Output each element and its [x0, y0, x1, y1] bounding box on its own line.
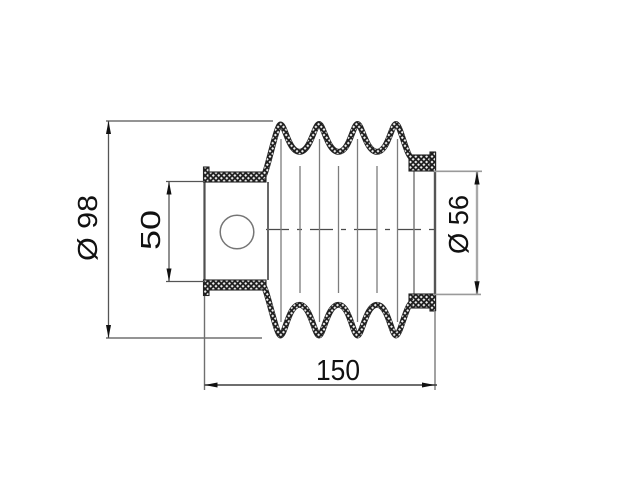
dim 98 dimension line	[108, 121, 110, 338]
dim 150 right arrow	[422, 383, 435, 388]
dim 50 bottom extension line	[166, 281, 205, 283]
big end left edge	[203, 167, 205, 296]
dim 56 bottom arrow	[474, 281, 479, 294]
dim 50 bottom arrow	[167, 269, 172, 282]
dim 150 left arrow	[205, 383, 218, 388]
dim 98 bottom arrow	[106, 325, 111, 338]
dim 150 left extension line	[204, 296, 206, 390]
small end top clamp band	[409, 155, 435, 171]
fold line at peak x=397.5	[397, 139, 399, 322]
fold line at valley x=338.5	[338, 166, 340, 293]
fold line at valley x=377	[376, 166, 378, 293]
small end bottom right lip	[430, 294, 436, 311]
fold line at valley x=300	[299, 166, 301, 293]
dim 56 top arrow	[474, 171, 479, 184]
big end top left lip	[204, 167, 210, 182]
dim 98 top arrow	[106, 121, 111, 134]
small end right edge	[434, 152, 436, 311]
big end top clamp band	[204, 172, 266, 182]
dim 150 dimension line	[205, 384, 438, 386]
small end bottom clamp band	[409, 294, 435, 308]
dim 98 top extension line	[106, 120, 273, 122]
small end top right lip	[430, 152, 436, 171]
mounting hole circle	[220, 215, 254, 249]
dim 50 dimension line	[168, 182, 170, 282]
big end bottom left lip	[204, 280, 210, 296]
big end bottom clamp band	[204, 280, 266, 290]
svg-text:Ø 98: Ø 98	[72, 195, 103, 261]
big end inner right edge	[267, 182, 269, 280]
dim 50 top extension line	[166, 181, 205, 183]
dim 50 top arrow	[167, 182, 172, 195]
svg-text:150: 150	[316, 355, 360, 387]
bellows top corrugated wall	[263, 124, 414, 177]
centerline (dash-dot axis)	[266, 229, 442, 231]
fold line at peak x=319.5	[319, 139, 321, 322]
fold line at peak x=357.5	[357, 139, 359, 322]
bellows bottom corrugated wall	[263, 285, 414, 336]
dim 56 bottom extension line	[433, 293, 481, 295]
fold line at peak x=281	[280, 139, 282, 322]
svg-text:50: 50	[135, 210, 166, 250]
svg-text:Ø 56: Ø 56	[443, 195, 474, 254]
dim 56 top extension line	[434, 170, 482, 172]
dim 56 dimension line	[476, 171, 478, 294]
dim 150 right extension line	[434, 311, 436, 390]
dim 98 bottom extension line	[106, 337, 262, 339]
small end inner left edge	[413, 171, 415, 294]
